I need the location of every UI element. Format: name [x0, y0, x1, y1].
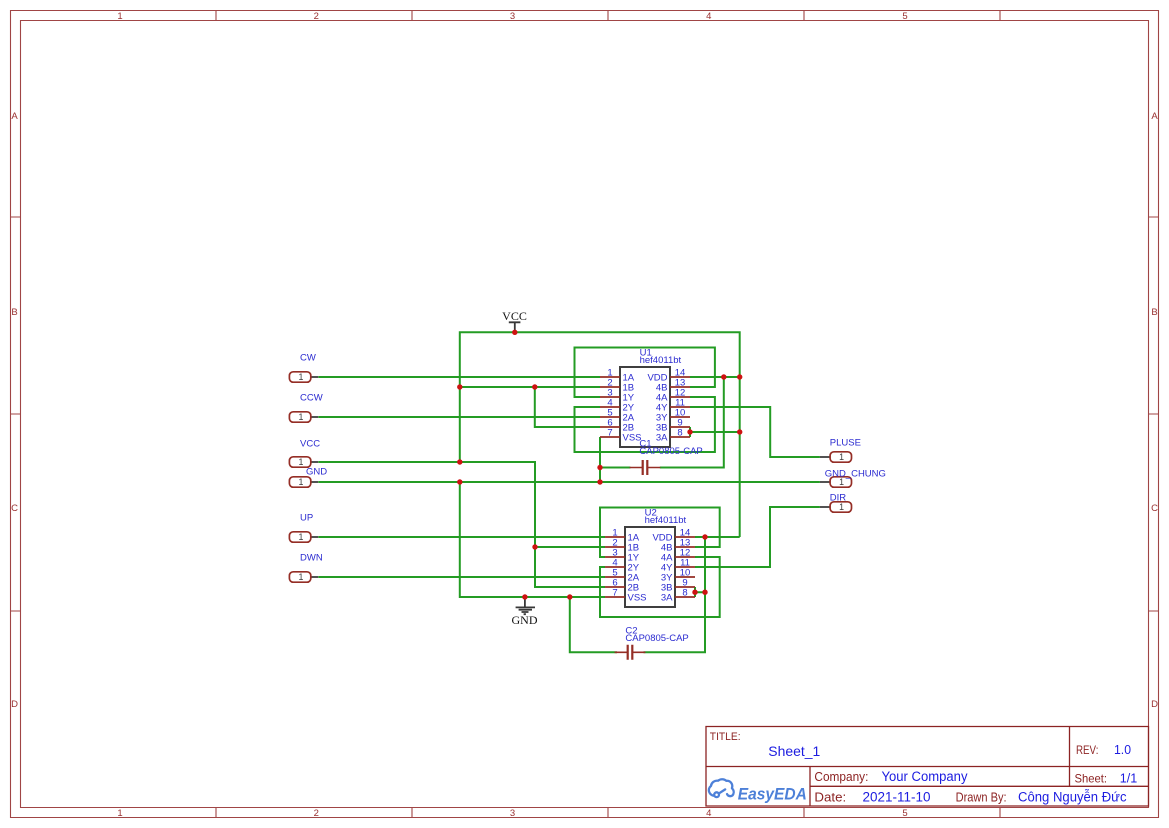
svg-text:Date:: Date: [814, 791, 846, 805]
svg-text:DWN: DWN [300, 553, 323, 564]
svg-text:D: D [1151, 699, 1158, 710]
svg-text:B: B [1151, 307, 1157, 318]
svg-text:1: 1 [298, 372, 303, 382]
svg-text:TITLE:: TITLE: [710, 731, 741, 743]
svg-text:1: 1 [839, 452, 844, 462]
svg-text:3A: 3A [656, 433, 668, 444]
svg-text:VCC: VCC [502, 309, 527, 323]
svg-text:UP: UP [300, 513, 313, 524]
svg-text:1: 1 [298, 412, 303, 422]
svg-text:2: 2 [314, 11, 319, 22]
svg-text:PLUSE: PLUSE [830, 438, 861, 449]
svg-text:CAP0805-CAP: CAP0805-CAP [625, 633, 688, 644]
svg-text:2: 2 [314, 808, 319, 819]
svg-text:1: 1 [298, 572, 303, 582]
svg-text:REV:: REV: [1076, 743, 1098, 757]
svg-text:GND: GND [306, 467, 327, 478]
svg-text:5: 5 [902, 11, 907, 22]
svg-text:GND_CHUNG: GND_CHUNG [825, 468, 886, 479]
svg-text:C: C [11, 503, 18, 514]
svg-text:1/1: 1/1 [1120, 770, 1138, 785]
svg-text:DIR: DIR [830, 492, 847, 503]
svg-text:CW: CW [300, 352, 316, 363]
svg-text:Drawn By:: Drawn By: [956, 791, 1007, 805]
svg-text:VSS: VSS [628, 593, 647, 604]
svg-text:1: 1 [117, 808, 122, 819]
svg-text:1: 1 [117, 11, 122, 22]
svg-text:Your Company: Your Company [882, 769, 968, 784]
svg-text:Sheet_1: Sheet_1 [768, 743, 820, 759]
svg-text:1: 1 [298, 477, 303, 487]
svg-text:B: B [11, 307, 17, 318]
svg-text:Sheet:: Sheet: [1075, 771, 1108, 785]
svg-text:1.0: 1.0 [1114, 742, 1131, 757]
svg-text:VCC: VCC [300, 439, 320, 450]
svg-text:3A: 3A [661, 593, 673, 604]
svg-text:8: 8 [682, 588, 687, 599]
svg-text:1: 1 [298, 532, 303, 542]
svg-text:3: 3 [510, 808, 515, 819]
svg-text:A: A [11, 111, 18, 122]
svg-text:4: 4 [706, 11, 711, 22]
svg-text:7: 7 [612, 588, 617, 599]
svg-text:C: C [1151, 503, 1158, 514]
svg-text:D: D [11, 699, 18, 710]
svg-text:1: 1 [298, 457, 303, 467]
svg-text:CCW: CCW [300, 393, 323, 404]
svg-text:8: 8 [677, 428, 682, 439]
svg-text:hef4011bt: hef4011bt [645, 515, 687, 526]
svg-text:Công Nguyễn Đức: Công Nguyễn Đức [1018, 790, 1127, 805]
svg-text:7: 7 [607, 428, 612, 439]
svg-text:A: A [1151, 111, 1158, 122]
svg-text:2021-11-10: 2021-11-10 [863, 790, 931, 805]
svg-text:hef4011bt: hef4011bt [640, 355, 682, 366]
svg-text:GND: GND [512, 613, 538, 627]
svg-text:4: 4 [706, 808, 711, 819]
svg-text:3: 3 [510, 11, 515, 22]
svg-text:5: 5 [902, 808, 907, 819]
svg-text:CAP0805-CAP: CAP0805-CAP [639, 446, 702, 457]
svg-text:1: 1 [839, 502, 844, 512]
svg-text:EasyEDA: EasyEDA [738, 784, 807, 803]
svg-text:Company:: Company: [814, 770, 868, 784]
